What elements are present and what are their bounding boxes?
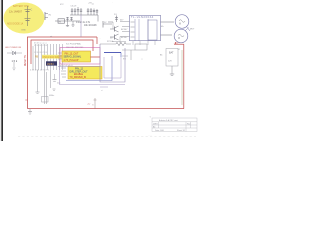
transistor Q2 xyxy=(110,34,128,42)
svg-text:ADD DIODE 1A: ADD DIODE 1A xyxy=(7,22,24,25)
highlight box 2 xyxy=(68,67,102,80)
label motors xyxy=(190,29,195,31)
connector J1 xyxy=(45,12,51,20)
svg-text:SERVO_SIGNAL: SERVO_SIGNAL xyxy=(64,56,82,59)
svg-text:MOT: MOT xyxy=(190,29,195,31)
capacitor C8 xyxy=(87,8,89,15)
wire q2 to resistor row xyxy=(119,37,121,45)
capacitor C5 xyxy=(74,8,76,15)
ground symbol xtal xyxy=(36,92,40,94)
relay K1 bottom stubs xyxy=(133,41,155,45)
svg-text:RESET 5V: RESET 5V xyxy=(25,54,27,66)
crystal circuit wires xyxy=(38,70,51,104)
net label rst xyxy=(50,35,53,38)
svg-text:1 2 3 4 5 6 7 8 9: 1 2 3 4 5 6 7 8 9 xyxy=(34,52,47,54)
svg-text:C: C xyxy=(31,9,33,12)
wire red bottom rail xyxy=(28,108,184,110)
svg-text:10k 1N4148: 10k 1N4148 xyxy=(84,25,97,27)
capacitor bank bus wire xyxy=(70,4,98,22)
capacitor C9 bank xyxy=(90,8,98,15)
wires motor feed xyxy=(161,22,175,35)
motor M1 xyxy=(175,15,190,31)
svg-text:Arduino 3-A CNC cont.: Arduino 3-A CNC cont. xyxy=(159,119,179,122)
svg-text:BAT: BAT xyxy=(169,52,174,55)
svg-text:4k7: 4k7 xyxy=(110,37,113,39)
svg-text:C3-C9: C3-C9 xyxy=(71,6,78,8)
highlight box 1 xyxy=(62,51,91,62)
connector bottom rail xyxy=(92,98,97,109)
diode D1 xyxy=(108,14,124,29)
wire vin bus xyxy=(55,20,80,22)
svg-text:TL-ULN2003A: TL-ULN2003A xyxy=(131,16,154,19)
purple frame A xyxy=(100,44,125,82)
resistor R4 row xyxy=(0,0,1,1)
red net inner loop xyxy=(31,40,93,64)
ground symbol bottom rail xyxy=(28,109,32,115)
battery symbol B2 xyxy=(25,6,33,26)
pins left of box2 xyxy=(61,68,66,77)
svg-text:.s: .s xyxy=(141,59,143,61)
svg-text:4 13 12 11 10 9 8 7 6: 4 13 12 11 10 9 8 7 6 xyxy=(30,70,50,72)
svg-text:IC1 PIC16F84A: IC1 PIC16F84A xyxy=(66,43,81,46)
purple frame B xyxy=(104,57,121,78)
IC U1 name tag xyxy=(46,61,57,66)
purple stub xyxy=(100,87,108,92)
IC U1 pin labels bottom xyxy=(30,70,50,72)
resistor R1 left xyxy=(12,59,18,67)
wire tan sense xyxy=(181,50,183,105)
svg-text:+5v: +5v xyxy=(87,104,90,106)
svg-text:12V: 12V xyxy=(168,61,172,63)
svg-text:1.5 k: 1.5 k xyxy=(12,59,18,63)
junction tick reset line xyxy=(25,99,27,101)
red net vcc loop xyxy=(28,37,98,109)
diode D2 left xyxy=(7,50,22,55)
svg-text:DIR_STEP_OUT: DIR_STEP_OUT xyxy=(70,70,89,73)
svg-text:R7 10k: R7 10k xyxy=(107,41,115,43)
ground symbol G1 xyxy=(66,21,69,27)
IC U1 pin labels top xyxy=(66,43,84,50)
wires relay inputs xyxy=(120,22,130,37)
scan edge left border xyxy=(0,0,3,141)
svg-text:Date: 10/8: Date: 10/8 xyxy=(155,129,164,132)
svg-text:GND: GND xyxy=(21,30,26,32)
svg-text:OSC1 RA0 RA1: OSC1 RA0 RA1 xyxy=(43,56,61,59)
svg-text:M: M xyxy=(179,23,181,26)
svg-text:ENABLE: ENABLE xyxy=(74,73,84,76)
value labels caps xyxy=(76,22,97,27)
svg-text:PIN_13_OUT: PIN_13_OUT xyxy=(65,54,79,56)
bottom frame dotted line xyxy=(18,135,196,137)
svg-text:. . . .: . . . . xyxy=(148,135,152,137)
IC U1 pin labels rows xyxy=(34,42,47,47)
IC U1 highlighted net names xyxy=(34,52,62,59)
regulator U2 7805 xyxy=(58,4,65,24)
note text battery xyxy=(9,5,29,14)
svg-text:+5V: +5V xyxy=(88,3,92,5)
top edge marks xyxy=(88,2,113,5)
svg-text:BATTERY CHG: BATTERY CHG xyxy=(13,5,29,8)
svg-text:RB: RB xyxy=(35,57,39,59)
net label +5v bottom xyxy=(87,104,90,106)
crystal X1 xyxy=(42,95,55,102)
svg-text:TO_DRIVER_IN: TO_DRIVER_IN xyxy=(70,77,87,79)
resistor R2 xyxy=(99,37,131,45)
blue wire thick xyxy=(104,53,121,58)
highlight ellipse (battery note) xyxy=(4,3,45,34)
capacitor C2 xyxy=(70,17,73,21)
ground symbol left xyxy=(13,68,16,71)
relay K1 contact box xyxy=(148,20,157,40)
svg-text:M: M xyxy=(178,37,180,40)
svg-text:+12V: +12V xyxy=(174,43,180,45)
highlight marker box magenta xyxy=(60,48,100,65)
transistor Q1 xyxy=(110,26,128,32)
ground symbol G2 xyxy=(72,21,75,26)
svg-text:0.1uF 4x 4.7k: 0.1uF 4x 4.7k xyxy=(76,22,91,24)
capacitor C7 xyxy=(80,8,82,15)
svg-text:4MHz: 4MHz xyxy=(49,95,54,97)
resistor R3 xyxy=(0,0,1,1)
driver sub box xyxy=(122,44,147,61)
battery B1 xyxy=(160,49,178,67)
ground symbol battery xyxy=(170,66,174,75)
net label reset (vertical red text) xyxy=(25,54,27,66)
label under box1 xyxy=(60,65,73,67)
purple net mid xyxy=(60,62,126,85)
svg-text:4.7K_PULLUP: 4.7K_PULLUP xyxy=(64,60,79,62)
LED note left xyxy=(5,47,22,49)
relay K1 body xyxy=(130,15,161,40)
svg-text:Sheet 1/1: Sheet 1/1 xyxy=(177,129,185,132)
pins left of box1 xyxy=(58,53,62,59)
wire red motor to battery xyxy=(174,42,184,109)
svg-text:LED POWER ON: LED POWER ON xyxy=(5,47,22,49)
svg-text:DWG: DWG xyxy=(153,123,158,125)
svg-text:16F84: 16F84 xyxy=(47,63,54,66)
capacitor C1 xyxy=(66,17,69,21)
IC U1 pins xyxy=(33,44,63,70)
note text 2 xyxy=(7,22,26,31)
capacitor C9 xyxy=(53,74,62,85)
wire red out of box1 xyxy=(91,56,101,58)
svg-text:1 2 3 4 5 6 7 8 9: 1 2 3 4 5 6 7 8 9 xyxy=(34,45,47,47)
purple wire osc xyxy=(58,66,100,68)
svg-text:BC547: BC547 xyxy=(121,37,128,39)
svg-text:Rev: Rev xyxy=(187,123,190,125)
title block text xyxy=(150,116,191,132)
capacitor C6 xyxy=(77,7,79,15)
purple wire from cap bank to red rect xyxy=(80,15,82,38)
title block xyxy=(152,118,197,132)
capacitor C10 xyxy=(53,89,56,90)
capacitor C4 xyxy=(71,8,73,15)
pin header P1 xyxy=(103,21,112,28)
motor M2 xyxy=(174,28,188,43)
blue wire step xyxy=(66,56,112,81)
svg-text:A4: A4 xyxy=(153,125,155,128)
svg-text:12v 1N4007: 12v 1N4007 xyxy=(9,11,23,14)
svg-text:BC547: BC547 xyxy=(121,29,128,31)
